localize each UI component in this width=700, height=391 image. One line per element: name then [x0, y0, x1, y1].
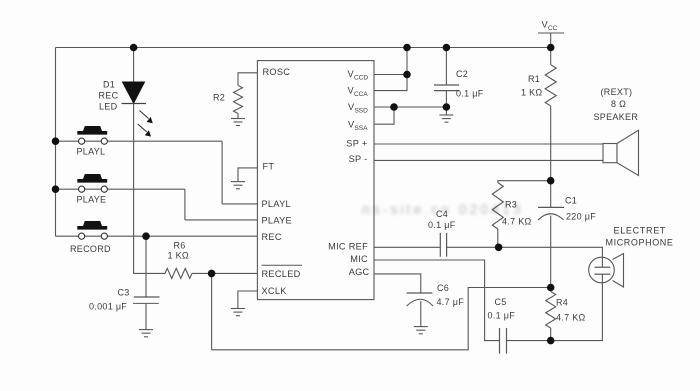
wire LED anode from rail — [133, 48, 135, 83]
node top rail VCC junction — [547, 44, 555, 52]
pin label PLAYE — [262, 216, 292, 226]
capacitor C2 — [434, 69, 484, 99]
wire C3 branch — [145, 236, 147, 297]
svg-text:SPEAKER: SPEAKER — [594, 112, 639, 122]
wire C6 to ground — [420, 301, 422, 327]
resistor R1 — [521, 65, 556, 106]
svg-text:C3: C3 — [118, 288, 130, 298]
wire ROSC to R2 — [238, 73, 257, 86]
wire SP+ to speaker — [374, 143, 603, 145]
microphone MK1 — [589, 226, 674, 288]
wire PLAYL row — [56, 140, 223, 142]
wire node to R3 top — [498, 181, 551, 183]
wire PLAYE vertical drop — [184, 189, 186, 220]
node MICREF R3 junction — [495, 244, 503, 252]
svg-text:RECORD: RECORD — [70, 244, 111, 254]
svg-text:PLAYE: PLAYE — [77, 195, 107, 205]
ground XCLK — [231, 309, 245, 316]
svg-text:REC: REC — [262, 232, 282, 242]
pin label VCCA — [348, 85, 369, 98]
pin label VSSA — [348, 120, 368, 133]
wire FT to ground — [238, 168, 257, 181]
svg-text:(REXT): (REXT) — [601, 87, 633, 97]
node top rail LED junction — [130, 44, 138, 52]
node C2 bottom junction — [443, 103, 451, 111]
wire PLAYL to IC pin — [222, 203, 257, 205]
svg-text:R2: R2 — [213, 93, 225, 103]
svg-text:MICROPHONE: MICROPHONE — [606, 238, 674, 248]
IC U1 box — [257, 61, 374, 300]
speaker SP1 — [594, 87, 639, 176]
ground R2 — [231, 119, 245, 126]
wire C1 bottom lead — [550, 216, 552, 288]
svg-text:ns-site.cn 020413: ns-site.cn 020413 — [362, 201, 524, 217]
node C1 R4 junction — [547, 284, 555, 292]
wire top VCC rail — [56, 47, 551, 49]
svg-text:R4: R4 — [556, 298, 568, 308]
wire RECORD row to REC pin — [56, 235, 258, 237]
node top rail C2 junction — [443, 44, 451, 52]
svg-text:D1: D1 — [103, 79, 115, 89]
pin label VCCD — [348, 69, 369, 82]
pin label MIC — [350, 254, 368, 264]
pin label RECLED with overline — [262, 265, 303, 279]
svg-text:MIC REF: MIC REF — [328, 241, 368, 251]
switch RECORD — [70, 221, 111, 254]
wire R2 to ground — [237, 114, 239, 119]
node VCCD pin junction — [403, 71, 411, 79]
svg-text:0.1 μF: 0.1 μF — [428, 220, 456, 230]
capacitor C4 — [428, 209, 456, 257]
capacitor C5 — [488, 297, 516, 354]
svg-text:PLAYL: PLAYL — [77, 147, 106, 157]
node left rail PLAYE junction — [52, 185, 60, 193]
wire AGC pin to C6 — [374, 274, 421, 293]
wire C1 top lead — [550, 181, 552, 208]
switch PLAYL — [77, 126, 108, 157]
wire RECLED junction drop — [211, 273, 213, 349]
svg-text:4.7 KΩ: 4.7 KΩ — [556, 313, 586, 323]
wire R4 bottom lead — [550, 328, 552, 341]
node VSSD pin junction — [390, 103, 398, 111]
wire VCCD to rail — [406, 48, 408, 75]
watermark — [362, 201, 524, 217]
pin label XCLK — [262, 286, 288, 296]
resistor R4 — [546, 292, 586, 328]
wire MICREF pin to C4 — [374, 246, 440, 248]
wire PLAYE row — [56, 188, 185, 190]
pin label SP- — [349, 154, 368, 164]
wire C2 bottom to ground — [445, 91, 447, 115]
svg-text:0.1 μF: 0.1 μF — [456, 89, 484, 99]
node R4 bottom junction — [547, 337, 555, 345]
capacitor C6 — [407, 283, 465, 307]
svg-text:REC: REC — [99, 91, 119, 101]
wire R1 top lead — [550, 48, 552, 65]
wire MIC pin down — [374, 260, 500, 341]
pin label SP+ — [346, 139, 367, 149]
svg-text:ELECTRET: ELECTRET — [614, 226, 667, 236]
node R1 C1 R3 junction — [547, 177, 555, 185]
wire VCCD pin — [374, 74, 407, 76]
wire PLAYL vertical drop — [221, 141, 223, 204]
wire C4 to mic top — [447, 247, 603, 257]
pin label REC — [262, 232, 282, 242]
svg-text:4.7 μF: 4.7 μF — [437, 297, 465, 307]
svg-text:ROSC: ROSC — [263, 67, 291, 77]
capacitor C1 — [538, 196, 596, 222]
ground C2 — [439, 115, 453, 122]
wire VSSD pin to C2 — [374, 106, 446, 108]
svg-text:4.7 KΩ: 4.7 KΩ — [502, 217, 532, 227]
pin label AGC — [349, 267, 370, 277]
svg-text:C6: C6 — [437, 283, 449, 293]
svg-text:SP +: SP + — [346, 139, 367, 149]
wire PLAYE to IC pin — [185, 219, 258, 221]
svg-text:C1: C1 — [565, 196, 577, 206]
wire SP- to speaker — [374, 159, 603, 161]
power VCC symbol — [538, 20, 564, 34]
wire R6 to RECLED pin — [192, 272, 257, 274]
svg-text:PLAYL: PLAYL — [262, 199, 291, 209]
wire C3 to ground — [145, 303, 147, 329]
svg-text:220 μF: 220 μF — [566, 212, 596, 222]
wire R3 bottom to MICREF node — [497, 229, 499, 247]
svg-text:C5: C5 — [495, 297, 507, 307]
ground C6 — [414, 327, 428, 334]
wire left rail — [55, 48, 57, 237]
svg-text:0.001 μF: 0.001 μF — [89, 302, 127, 312]
pin label VSSD — [348, 102, 368, 115]
wire VCC drop to rail — [550, 33, 552, 48]
wire VSSA pin — [374, 107, 394, 124]
svg-text:AGC: AGC — [349, 267, 370, 277]
LED D1 — [99, 79, 153, 136]
svg-text:LED: LED — [99, 102, 118, 112]
svg-text:XCLK: XCLK — [262, 286, 288, 296]
svg-text:RECLED: RECLED — [262, 269, 301, 279]
svg-text:PLAYE: PLAYE — [262, 216, 292, 226]
wire XCLK to ground — [238, 291, 258, 309]
svg-text:C2: C2 — [456, 69, 468, 79]
node left rail PLAYL junction — [52, 137, 60, 145]
capacitor C3 — [89, 288, 160, 312]
svg-text:1 KΩ: 1 KΩ — [521, 88, 542, 98]
svg-text:R1: R1 — [528, 74, 540, 84]
wire R1 bottom lead to node — [550, 106, 552, 181]
svg-text:R6: R6 — [174, 241, 186, 251]
wire LED cathode down — [134, 104, 165, 274]
pin label FT — [263, 162, 275, 172]
svg-text:SP -: SP - — [349, 154, 368, 164]
svg-text:0.1 μF: 0.1 μF — [488, 311, 516, 321]
svg-text:8 Ω: 8 Ω — [611, 99, 626, 109]
wire VCCA pin — [374, 75, 407, 91]
wire C2 top from rail — [445, 48, 447, 86]
node top rail VCCD junction — [403, 44, 411, 52]
wire bottom run — [212, 288, 551, 350]
wire C5 right to mic bottom — [507, 283, 603, 341]
pin label ROSC — [263, 67, 291, 77]
pin label MIC REF — [328, 241, 368, 251]
svg-text:MIC: MIC — [350, 254, 368, 264]
node REC C3 junction — [142, 232, 150, 240]
wire R4 top lead — [550, 288, 552, 292]
ground FT — [231, 182, 245, 189]
switch PLAYE — [77, 174, 108, 205]
pin label PLAYL — [262, 199, 291, 209]
ground C3 — [139, 330, 153, 337]
svg-text:FT: FT — [263, 162, 275, 172]
resistor R2 — [213, 85, 243, 113]
node RECLED junction — [208, 270, 216, 278]
resistor R3 — [492, 183, 531, 230]
resistor R6 — [165, 241, 192, 279]
svg-text:1 KΩ: 1 KΩ — [168, 251, 189, 261]
